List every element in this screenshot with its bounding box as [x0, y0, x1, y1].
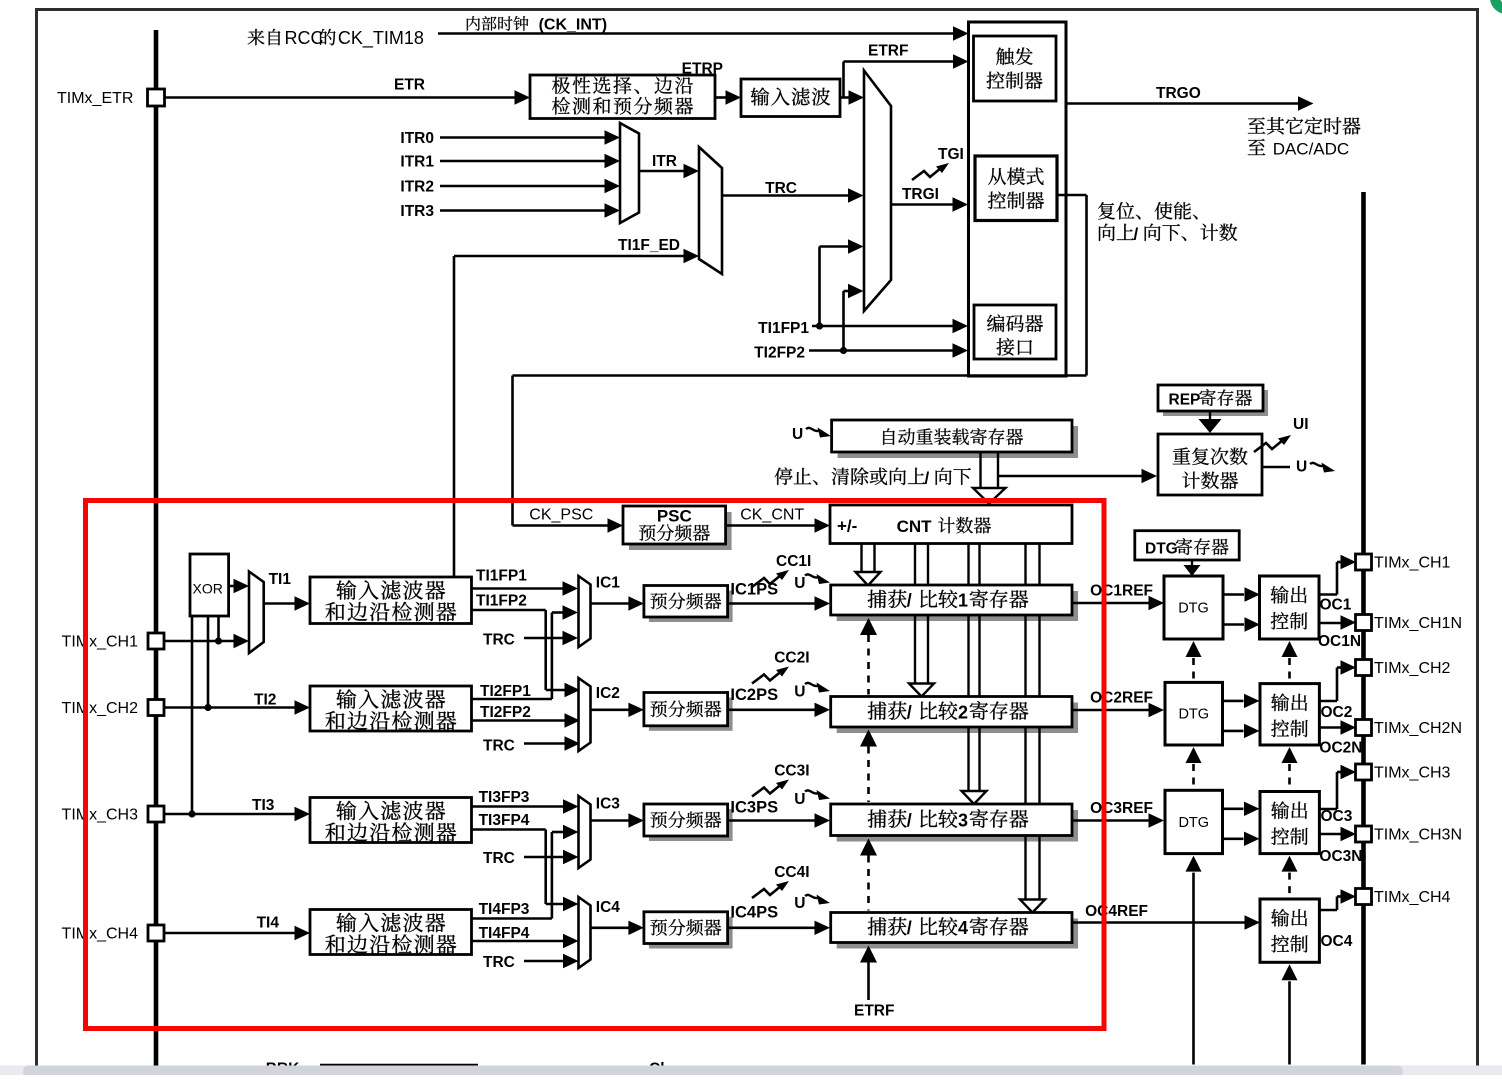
svg-text:OC2N: OC2N [1319, 740, 1362, 757]
svg-text:/: / [907, 918, 912, 938]
svg-text:OC1REF: OC1REF [1090, 583, 1153, 600]
svg-text:TIMx_CH2: TIMx_CH2 [1374, 660, 1451, 677]
svg-text:TIMx_CH3N: TIMx_CH3N [1374, 827, 1462, 844]
svg-text:TIMx_CH2: TIMx_CH2 [62, 700, 139, 717]
svg-text:TI2: TI2 [254, 692, 276, 709]
svg-text:/: / [925, 469, 930, 488]
svg-text:CK_TIM18: CK_TIM18 [338, 28, 424, 49]
svg-text:4: 4 [958, 918, 968, 938]
svg-text:ETRP: ETRP [682, 61, 723, 78]
svg-text:U: U [794, 791, 805, 808]
svg-text:IC4: IC4 [596, 899, 621, 916]
svg-text:CC2I: CC2I [774, 650, 809, 667]
svg-text:DTG: DTG [1178, 815, 1209, 831]
svg-text:OC2REF: OC2REF [1090, 690, 1153, 707]
svg-text:OC1N: OC1N [1318, 633, 1361, 650]
svg-text:CNT: CNT [897, 517, 933, 536]
svg-text:RCC: RCC [285, 28, 324, 48]
svg-text:/: / [1134, 225, 1139, 244]
svg-text:U: U [794, 895, 805, 912]
svg-text:OC1: OC1 [1320, 597, 1352, 614]
svg-text:TRC: TRC [483, 954, 515, 971]
svg-text:/: / [907, 702, 912, 722]
svg-text:TRC: TRC [483, 738, 515, 755]
svg-text:ITR0: ITR0 [400, 130, 434, 147]
svg-text:CK_PSC: CK_PSC [529, 507, 593, 524]
svg-text:TI3FP3: TI3FP3 [479, 789, 530, 806]
svg-text:(CK_INT): (CK_INT) [539, 17, 607, 34]
svg-text:+/-: +/- [837, 517, 857, 536]
svg-text:TIMx_CH1N: TIMx_CH1N [1374, 615, 1462, 632]
svg-text:CC1I: CC1I [776, 553, 811, 570]
svg-text:TGI: TGI [938, 146, 964, 163]
svg-text:CC3I: CC3I [774, 763, 809, 780]
svg-text:OC4: OC4 [1321, 933, 1353, 950]
svg-text:U: U [792, 426, 803, 443]
svg-text:OC3: OC3 [1321, 808, 1353, 825]
svg-text:TI4FP4: TI4FP4 [479, 925, 530, 942]
svg-text:TRC: TRC [765, 180, 797, 197]
svg-text:TIMx_CH4: TIMx_CH4 [62, 926, 139, 943]
svg-text:REP: REP [1169, 392, 1201, 409]
svg-text:DTG: DTG [1145, 541, 1178, 558]
svg-text:IC4PS: IC4PS [730, 904, 778, 922]
svg-text:TRC: TRC [483, 850, 515, 867]
svg-text:OC3N: OC3N [1319, 848, 1362, 865]
svg-text:U: U [1296, 459, 1307, 476]
svg-text:TIMx_CH1: TIMx_CH1 [62, 634, 139, 651]
svg-text:TI4: TI4 [257, 915, 280, 932]
svg-text:ITR3: ITR3 [400, 203, 434, 220]
svg-text:ETRF: ETRF [868, 43, 908, 60]
svg-text:IC2: IC2 [596, 685, 620, 702]
svg-text:TI4FP3: TI4FP3 [479, 901, 530, 918]
svg-text:OC4REF: OC4REF [1085, 903, 1148, 920]
svg-text:TI1FP1: TI1FP1 [758, 320, 809, 337]
svg-text:/: / [907, 591, 912, 611]
svg-text:TRGO: TRGO [1156, 85, 1201, 102]
svg-text:1: 1 [958, 591, 968, 611]
svg-text:TI2FP2: TI2FP2 [480, 704, 531, 721]
svg-text:CK_CNT: CK_CNT [740, 507, 804, 524]
svg-text:IC3PS: IC3PS [730, 799, 778, 817]
svg-text:TIMx_CH2N: TIMx_CH2N [1374, 720, 1462, 737]
svg-text:TIMx_CH4: TIMx_CH4 [1374, 889, 1451, 906]
svg-text:ITR1: ITR1 [400, 154, 434, 171]
svg-text:XOR: XOR [193, 581, 223, 597]
svg-text:U: U [794, 575, 805, 592]
svg-text:TRGI: TRGI [902, 186, 939, 203]
svg-text:DAC/ADC: DAC/ADC [1273, 140, 1350, 159]
svg-text:TI3: TI3 [252, 797, 275, 814]
svg-text:IC1: IC1 [596, 575, 621, 592]
svg-text:UI: UI [1293, 416, 1309, 433]
svg-text:ITR2: ITR2 [400, 179, 434, 196]
svg-text:TIMx_CH3: TIMx_CH3 [1374, 765, 1451, 782]
svg-text:TRC: TRC [483, 632, 515, 649]
svg-text:U: U [794, 684, 805, 701]
svg-text:TI2FP2: TI2FP2 [754, 345, 805, 362]
svg-text:TIMx_ETR: TIMx_ETR [57, 90, 133, 107]
svg-text:TI2FP1: TI2FP1 [480, 683, 531, 700]
svg-text:TIMx_CH1: TIMx_CH1 [1374, 555, 1451, 572]
svg-text:PSC: PSC [657, 507, 692, 526]
svg-text:TI1: TI1 [269, 571, 292, 588]
svg-text:ITR: ITR [652, 153, 677, 170]
svg-text:IC2PS: IC2PS [730, 686, 778, 704]
svg-text:TIMx_CH3: TIMx_CH3 [62, 807, 139, 824]
svg-text:OC2: OC2 [1321, 704, 1353, 721]
svg-text:ETR: ETR [394, 77, 425, 94]
svg-text:DTG: DTG [1178, 707, 1209, 723]
svg-text:TI1FP2: TI1FP2 [476, 593, 527, 610]
svg-text:DTG: DTG [1178, 601, 1209, 617]
svg-text:ETRF: ETRF [854, 1003, 894, 1020]
svg-text:TI1F_ED: TI1F_ED [618, 237, 680, 254]
svg-text:2: 2 [958, 702, 968, 722]
svg-text:3: 3 [958, 810, 968, 830]
svg-text:TI1FP1: TI1FP1 [476, 568, 527, 585]
svg-text:/: / [907, 810, 912, 830]
svg-text:IC3: IC3 [596, 796, 621, 813]
svg-text:CC4I: CC4I [774, 864, 809, 881]
svg-text:OC3REF: OC3REF [1090, 800, 1153, 817]
svg-text:TI3FP4: TI3FP4 [479, 812, 530, 829]
